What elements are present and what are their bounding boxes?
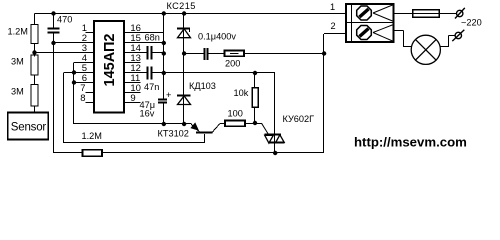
svg-text:47n: 47n	[144, 82, 159, 92]
svg-text:1.2M: 1.2M	[8, 27, 28, 37]
svg-text:100: 100	[228, 109, 243, 119]
svg-text:КС215: КС215	[167, 1, 196, 11]
svg-text:0.1μ400v: 0.1μ400v	[198, 31, 236, 41]
svg-text:~220: ~220	[461, 18, 482, 28]
svg-text:10k: 10k	[234, 88, 249, 98]
svg-text:Sensor: Sensor	[11, 122, 47, 134]
svg-text:145АП2: 145АП2	[102, 34, 118, 87]
svg-text:9: 9	[130, 93, 135, 104]
svg-text:200: 200	[225, 59, 240, 69]
svg-text:КУ602Г: КУ602Г	[283, 114, 315, 124]
svg-text:3М: 3М	[11, 57, 24, 67]
svg-text:16v: 16v	[140, 109, 155, 119]
svg-text:КД103: КД103	[189, 81, 216, 91]
svg-text:470: 470	[57, 15, 72, 25]
svg-text:1.2M: 1.2M	[82, 131, 102, 141]
svg-text:1: 1	[330, 2, 335, 12]
svg-text:3М: 3М	[11, 87, 24, 97]
svg-text:68n: 68n	[145, 33, 160, 43]
svg-text:http://msevm.com: http://msevm.com	[354, 135, 467, 150]
svg-text:КТ3102: КТ3102	[158, 129, 189, 139]
svg-text:2: 2	[331, 21, 336, 31]
svg-text:8: 8	[80, 93, 85, 104]
svg-text:+: +	[166, 90, 171, 100]
